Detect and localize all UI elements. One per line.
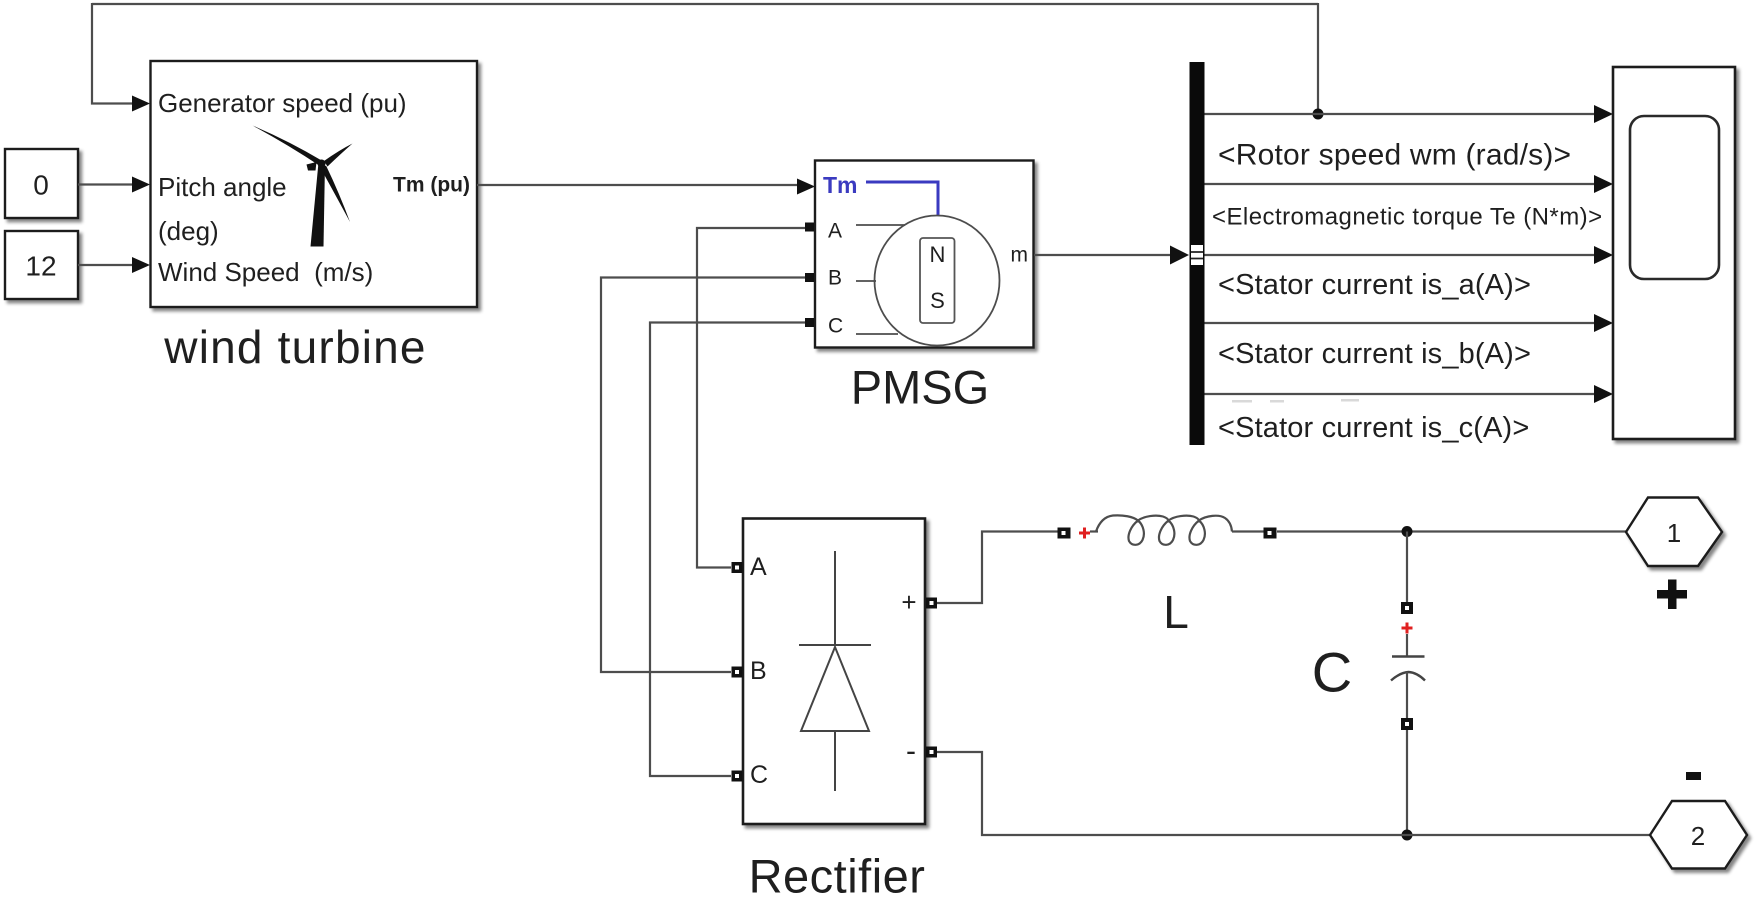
wire constant 0 to Pitch angle [78,183,133,185]
inductor right port square [1264,528,1277,539]
wire turbine Tm out to PMSG [477,184,799,186]
bus output wire 1 rotor speed [1205,113,1596,115]
constant block 12 [5,231,78,299]
inductor left port square [1058,528,1071,539]
wire constant 12 to Wind Speed [78,264,133,266]
wire feedback top horizontal [92,3,1318,5]
wire feedback right vertical [1317,3,1319,114]
capacitor red plus [1402,623,1413,634]
svg-text:Tm (pu): Tm (pu) [393,174,470,197]
arrow into Generator speed input [132,96,150,112]
svg-text:C: C [750,761,768,789]
capacitor bottom lead [1406,672,1408,718]
rectifier block [743,519,925,825]
svg-text:1: 1 [1667,518,1681,548]
svg-text:<Stator current is_a(A)>: <Stator current is_a(A)> [1218,269,1531,301]
wire red plus to coil [1090,530,1098,532]
svg-text:N: N [930,242,946,267]
svg-text:<Stator current is_c(A)>: <Stator current is_c(A)> [1218,412,1529,444]
bus output wire 4 is_b [1205,322,1596,324]
svg-text:L: L [1163,586,1189,638]
arrow into PMSG Tm [797,179,815,195]
capacitor top plate [1392,655,1425,657]
bus output wire 5 is_c [1205,393,1596,395]
svg-text:0: 0 [33,170,49,201]
svg-text:2: 2 [1691,821,1705,851]
svg-text:C: C [828,315,843,338]
wire coil to right port [1232,530,1264,532]
svg-text:Rectifier: Rectifier [749,850,926,903]
capacitor top port square [1401,602,1413,614]
svg-text:B: B [750,657,767,685]
capacitor top lead [1406,634,1408,656]
rectifier diode symbol [834,551,836,645]
inductor L coil [1096,515,1232,544]
PMSG block [815,161,1034,348]
arrow into bus selector [1170,246,1189,265]
constant block 0 [5,149,78,218]
wire PMSG m to bus selector [1034,254,1172,256]
bus output wire 3 is_a [1205,254,1596,256]
wire PMSG B to rectifier B [601,278,805,673]
svg-text:B: B [828,267,842,290]
bus output wire 2 torque [1205,183,1596,185]
svg-text:C: C [1312,641,1352,704]
svg-text:(deg): (deg) [158,216,219,246]
svg-text:+: + [901,587,916,617]
wind turbine rotor graphic [253,126,353,247]
node junction top of capacitor [1402,526,1413,537]
output port 2 hexagon [1650,801,1747,869]
wire rectifier - to bottom rail [937,752,1651,835]
svg-text:Generator speed (pu): Generator speed (pu) [158,88,407,118]
svg-text:PMSG: PMSG [851,361,989,414]
svg-text:wind turbine: wind turbine [163,321,426,373]
svg-text:m: m [1011,244,1029,267]
svg-text:<Electromagnetic torque Te (N*: <Electromagnetic torque Te (N*m)> [1212,204,1603,231]
wind turbine block [151,61,478,307]
output port 1 hexagon [1626,498,1722,567]
wire inductor to output port 1 [1277,530,1627,532]
wire PMSG A to rectifier A [697,228,805,568]
arrow into Pitch angle input [132,177,150,193]
svg-text:A: A [750,553,767,581]
wire rectifier + to inductor [937,532,1058,604]
bus selector bar [1190,62,1205,445]
capacitor bottom plate curved [1391,672,1425,681]
svg-text:<Rotor speed wm (rad/s)>: <Rotor speed wm (rad/s)> [1218,139,1571,172]
inductor red plus [1079,528,1090,539]
minus symbol of DC output [1686,772,1701,780]
bus selector input port icon [1191,245,1203,265]
wire junction down to capacitor [1406,532,1408,603]
scope screen [1630,116,1719,279]
node junction on rotor speed wire [1313,109,1324,120]
wire feedback left vertical [92,3,134,104]
svg-text:Pitch angle: Pitch angle [158,172,287,202]
svg-text:<Stator current is_b(A)>: <Stator current is_b(A)> [1218,338,1531,370]
node junction bottom rail [1402,830,1413,841]
scope block [1613,67,1735,439]
svg-text:A: A [828,220,842,243]
PMSG magnet [920,238,955,323]
plus symbol of DC output [1657,580,1687,610]
svg-text:12: 12 [25,251,56,282]
svg-text:Wind Speed (m/s): Wind Speed (m/s) [158,257,373,287]
wire PMSG C to rectifier C [650,323,805,777]
arrow into Wind Speed input [132,257,150,273]
ghost artifact marks [1232,399,1359,403]
PMSG blue Tm wire [866,182,938,216]
wire capacitor to bottom rail [1406,730,1408,835]
svg-text:-: - [906,735,916,768]
capacitor bottom port square [1401,718,1413,730]
svg-text:S: S [930,288,945,313]
svg-text:Tm: Tm [823,172,858,198]
PMSG machine circle [875,216,1000,346]
